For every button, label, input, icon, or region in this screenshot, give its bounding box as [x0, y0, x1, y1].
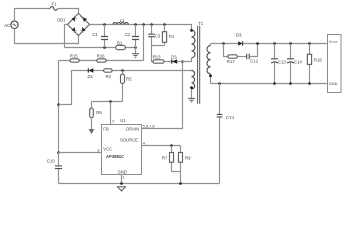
svg-text:GND: GND: [329, 81, 338, 86]
svg-text:R15: R15: [70, 53, 78, 58]
resistor R1: [162, 25, 166, 46]
svg-text:D1: D1: [88, 74, 94, 79]
svg-text:C3: C3: [155, 34, 161, 39]
transformer T1 primary: [183, 30, 195, 61]
node R1 top: [163, 23, 166, 26]
node C14 top: [289, 42, 292, 45]
ground (IC) triangle: [118, 187, 126, 191]
resistor R17: [228, 55, 247, 58]
wire R7 R9 join: [172, 172, 181, 184]
svg-text:L1: L1: [120, 18, 125, 23]
node drain clamp: [181, 60, 184, 63]
transformer T1 aux winding: [192, 71, 195, 99]
svg-text:3: 3: [97, 147, 99, 152]
resistor R9: [179, 146, 183, 172]
wire fuse to bridge top: [58, 9, 79, 14]
svg-text:CY1: CY1: [226, 115, 235, 120]
svg-text:FB: FB: [103, 126, 109, 131]
node C13 top: [273, 42, 276, 45]
node CY1 top: [218, 82, 221, 85]
svg-text:D3: D3: [236, 33, 242, 38]
wire VCC vertical: [58, 61, 60, 153]
output connector: [328, 35, 342, 93]
ground (aux): [188, 98, 195, 102]
wire secondary top rail: [211, 43, 239, 45]
wire DC+ rail: [90, 25, 192, 31]
capacitor C2: [132, 25, 139, 48]
svg-text:DB1: DB1: [57, 18, 66, 23]
svg-text:2: 2: [112, 119, 114, 124]
resistor R13: [153, 60, 172, 63]
svg-text:VOUT: VOUT: [329, 39, 338, 44]
node C1 top: [103, 23, 106, 26]
diode D1: [88, 68, 103, 72]
resistor R6: [90, 102, 94, 130]
diode D2 output: [238, 41, 327, 45]
node R7 top: [170, 144, 173, 147]
diode D3: [172, 59, 183, 63]
fuse F1: [50, 7, 57, 11]
phase dot secondary: [209, 74, 212, 77]
wire clamp join: [152, 46, 165, 62]
node R18 top: [308, 42, 311, 45]
svg-text:SOURCE: SOURCE: [120, 138, 138, 143]
svg-text:D3: D3: [171, 55, 177, 60]
svg-text:R17: R17: [227, 59, 235, 64]
svg-text:F1: F1: [52, 2, 58, 7]
svg-text:R18: R18: [314, 57, 322, 62]
svg-text:AC: AC: [4, 23, 10, 28]
svg-text:R16: R16: [97, 53, 105, 58]
node C12 right: [256, 42, 259, 45]
resistor R5: [121, 71, 125, 102]
wire startup branch down: [143, 25, 145, 61]
resistor R15: [70, 59, 79, 62]
wire VCC pin line: [59, 152, 102, 154]
wire secondary gnd rail: [211, 83, 328, 85]
wire IC GND pin: [121, 175, 123, 184]
wire D1 branch: [59, 71, 89, 105]
svg-text:R13: R13: [153, 55, 161, 60]
svg-text:T1: T1: [198, 21, 204, 26]
wire primary gnd rail: [65, 47, 136, 49]
svg-text:C10: C10: [47, 158, 55, 163]
svg-text:VCC: VCC: [103, 147, 112, 152]
phase dot aux: [190, 86, 193, 89]
wire DRAIN pin: [142, 62, 183, 129]
node source gnd: [179, 182, 182, 185]
capacitor C10: [55, 153, 62, 184]
svg-text:B1: B1: [117, 40, 123, 45]
capacitor C13: [271, 44, 278, 84]
wire AC top to fuse: [15, 9, 51, 22]
wire FB pin: [110, 102, 112, 125]
svg-text:R6: R6: [96, 110, 102, 115]
wire C2 to ground: [135, 48, 137, 54]
capacitor C1: [101, 25, 108, 48]
resistor R7: [170, 146, 174, 172]
svg-text:R5: R5: [126, 77, 132, 82]
capacitor C14: [287, 44, 294, 84]
capacitor C12: [247, 44, 258, 60]
inductor L1: [113, 23, 129, 25]
transformer core: [198, 26, 200, 104]
IC U1 AP3981C: [102, 125, 142, 175]
node C13 bottom: [273, 82, 276, 85]
node D1 join: [57, 103, 60, 106]
phase dot primary: [190, 29, 193, 32]
svg-text:U1: U1: [120, 118, 126, 123]
wire primary ground rail: [59, 183, 220, 185]
svg-text:C12: C12: [250, 59, 258, 64]
ground (C2): [132, 54, 139, 58]
svg-text:R9: R9: [185, 155, 191, 160]
node C2 top: [134, 23, 137, 26]
wire FB line: [92, 101, 123, 103]
svg-text:DRAIN: DRAIN: [126, 126, 139, 131]
wire SOURCE pin: [142, 145, 181, 147]
AC source V1: [11, 21, 18, 28]
svg-text:AP3981C: AP3981C: [106, 154, 124, 159]
wire bridge left to gnd rail: [65, 24, 68, 47]
svg-text:C14: C14: [294, 60, 302, 65]
transformer T1 secondary: [207, 44, 211, 84]
thermistor B1: [116, 45, 126, 49]
capacitor C3: [148, 25, 155, 46]
node C2 bottom: [134, 46, 137, 49]
svg-text:R1: R1: [169, 34, 175, 39]
svg-text:5,6,7,8: 5,6,7,8: [143, 123, 155, 128]
svg-text:4: 4: [143, 141, 146, 146]
capacitor CY1: [217, 84, 223, 184]
svg-text:C13: C13: [278, 60, 286, 65]
wire snubber left drop: [224, 44, 228, 57]
wire R15 R16 line: [59, 60, 144, 62]
node C3 top: [150, 23, 153, 26]
svg-text:1: 1: [123, 175, 125, 180]
node snubber left: [222, 42, 225, 45]
svg-text:C1: C1: [92, 32, 98, 37]
resistor R18: [307, 44, 311, 84]
wire AC bottom to bridge bottom: [15, 29, 79, 44]
node R18 bottom: [308, 82, 311, 85]
svg-text:C2: C2: [125, 32, 131, 37]
resistor R2: [104, 69, 192, 72]
node R5 top: [121, 69, 124, 72]
ground arrow (R6): [89, 129, 95, 134]
bridge rectifier DB1: [68, 13, 90, 35]
resistor R16: [97, 59, 106, 62]
node C1 bottom: [103, 46, 106, 49]
node IC gnd: [120, 182, 123, 185]
svg-text:R7: R7: [162, 155, 168, 160]
node VCC tee: [57, 151, 60, 154]
node startup branch: [142, 23, 145, 26]
node FB: [109, 100, 112, 103]
svg-text:R2: R2: [106, 74, 112, 79]
node C14 bottom: [289, 82, 292, 85]
